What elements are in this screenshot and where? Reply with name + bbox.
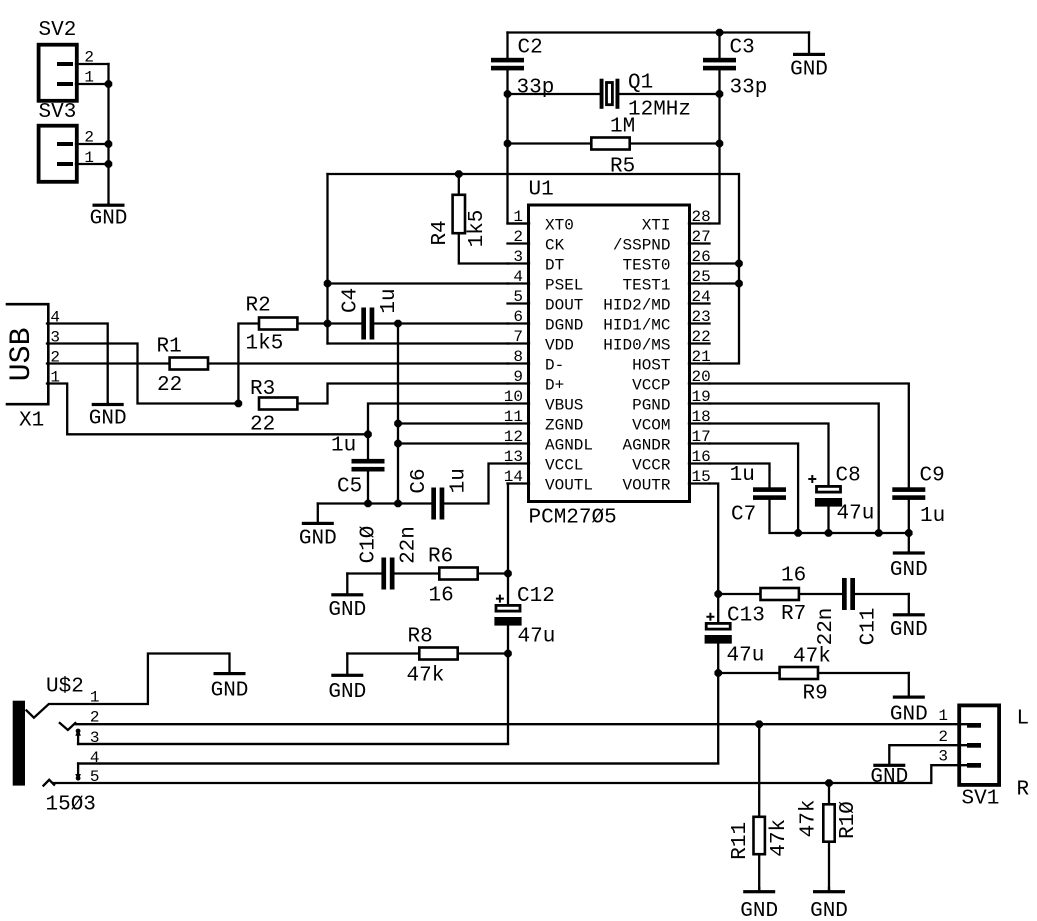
svg-text:PCM27Ø5: PCM27Ø5 — [529, 507, 617, 530]
wire R8 to VOUTL — [459, 652, 508, 654]
pin 22 stub of U1 — [689, 342, 710, 344]
svg-text:GND: GND — [740, 900, 778, 921]
wire VOUTL pin 14 vertical — [507, 484, 509, 605]
svg-text:PGND: PGND — [632, 397, 670, 415]
svg-text:6: 6 — [513, 308, 523, 326]
wire R10 bottom — [828, 843, 830, 890]
resistor R4 — [453, 195, 465, 233]
svg-text:22n: 22n — [815, 608, 838, 646]
svg-text:/SSPND: /SSPND — [613, 237, 671, 255]
resistor R10 — [823, 804, 834, 841]
pin 20 stub of U1 — [689, 382, 710, 384]
jack pin 4 switch arrow — [77, 764, 79, 774]
svg-text:22: 22 — [692, 328, 711, 346]
junction crystal right — [716, 90, 724, 98]
svg-text:21: 21 — [692, 348, 711, 366]
svg-text:TEST1: TEST1 — [622, 277, 670, 295]
wire C7 bottom to rail — [770, 500, 909, 533]
wire VBUS down to C5 — [367, 434, 369, 459]
svg-text:22: 22 — [157, 374, 182, 397]
junction PSEL branch — [324, 280, 332, 288]
wire USB pin2 to R1 — [47, 362, 168, 364]
wire VDD vertical — [326, 174, 328, 344]
svg-text:2: 2 — [938, 728, 948, 746]
svg-text:DT: DT — [545, 257, 564, 275]
pin 12 stub of U1 — [508, 442, 530, 444]
wire VDD net top run to TEST pins — [328, 174, 740, 364]
pin 1 stub of U1 — [508, 222, 530, 224]
svg-text:R1: R1 — [157, 336, 182, 359]
resistor R8 — [419, 648, 457, 660]
svg-text:GND: GND — [810, 900, 848, 921]
svg-text:R9: R9 — [803, 683, 828, 706]
svg-text:3: 3 — [938, 748, 948, 766]
wire SV1 pin 2 to GND — [889, 745, 978, 763]
wire C10 to R6 — [395, 572, 438, 574]
svg-text:47k: 47k — [407, 665, 445, 688]
pin 13 stub of U1 — [508, 462, 530, 464]
wire R11 top — [758, 724, 760, 815]
capacitor C7 — [753, 487, 786, 492]
pin 7 stub of U1 — [508, 342, 530, 344]
svg-text:U$2: U$2 — [46, 676, 84, 699]
pin 18 stub of U1 — [689, 422, 710, 424]
wire DGND vertical — [397, 324, 399, 504]
svg-text:25: 25 — [692, 268, 711, 286]
svg-text:VDD: VDD — [545, 337, 574, 355]
svg-text:1k5: 1k5 — [246, 333, 284, 356]
capacitor C9 — [892, 487, 925, 492]
svg-text:13: 13 — [504, 448, 523, 466]
capacitor C2 — [491, 58, 524, 63]
wire C3 top stub — [718, 33, 720, 59]
svg-text:1u: 1u — [448, 468, 471, 493]
wire R4 to pin 3 — [459, 235, 508, 264]
svg-text:GND: GND — [890, 559, 928, 582]
wire SV2 pin2 — [76, 63, 109, 65]
junction SV2 pin1 — [105, 80, 113, 88]
svg-text:33p: 33p — [730, 77, 768, 100]
wire C2 top stub — [506, 33, 508, 59]
svg-text:VBUS: VBUS — [545, 397, 583, 415]
svg-text:47k: 47k — [797, 799, 820, 837]
connector X1 USB — [7, 304, 48, 404]
junction rail C9 — [905, 529, 913, 537]
jack pin 5 contact — [44, 780, 55, 786]
svg-text:16: 16 — [429, 585, 454, 608]
svg-text:SV3: SV3 — [39, 101, 77, 124]
svg-text:14: 14 — [504, 468, 523, 486]
svg-text:CK: CK — [545, 237, 565, 255]
pin 16 stub of U1 — [689, 462, 710, 464]
svg-text:PSEL: PSEL — [545, 277, 583, 295]
svg-text:GND: GND — [328, 599, 366, 622]
svg-text:15: 15 — [692, 468, 711, 486]
jack pin 1 contact and wire to GND — [27, 654, 230, 718]
svg-text:26: 26 — [692, 248, 711, 266]
svg-text:VCCL: VCCL — [545, 457, 583, 475]
svg-text:GND: GND — [89, 407, 127, 430]
svg-text:10: 10 — [504, 388, 523, 406]
svg-text:L: L — [1017, 708, 1030, 731]
wire jack pin 4 row — [78, 762, 718, 764]
svg-text:HID0/MS: HID0/MS — [603, 337, 670, 355]
junction DGND bottom — [394, 500, 402, 508]
resistor R3 — [259, 398, 297, 410]
svg-text:SV2: SV2 — [39, 19, 77, 42]
svg-text:HID2/MD: HID2/MD — [603, 297, 670, 315]
svg-text:C1Ø: C1Ø — [357, 526, 380, 564]
svg-text:R11: R11 — [729, 822, 752, 860]
junction R7/VOUTR — [714, 590, 722, 598]
pin 11 stub of U1 — [508, 422, 530, 424]
wire R6 to VOUTL — [479, 572, 508, 574]
svg-text:33p: 33p — [517, 77, 555, 100]
svg-text:X1: X1 — [19, 410, 44, 433]
svg-text:47u: 47u — [727, 645, 765, 668]
svg-text:GND: GND — [890, 619, 928, 642]
pin 28 stub of U1 — [689, 222, 710, 224]
svg-text:2: 2 — [513, 228, 523, 246]
svg-text:R3: R3 — [250, 378, 275, 401]
svg-text:C4: C4 — [339, 288, 362, 313]
svg-text:HID1/MC: HID1/MC — [603, 317, 670, 335]
ground below R8 — [346, 654, 348, 675]
junction DGND top — [394, 320, 402, 328]
pin 5 stub of U1 — [508, 302, 530, 304]
svg-text:AGNDL: AGNDL — [545, 437, 593, 455]
resistor R7 — [761, 588, 799, 600]
svg-text:C7: C7 — [731, 504, 756, 527]
pin 17 stub of U1 — [689, 442, 710, 444]
capacitor C11 — [842, 578, 847, 610]
svg-text:22: 22 — [250, 414, 275, 437]
svg-text:TEST0: TEST0 — [622, 257, 670, 275]
pin 8 stub of U1 — [508, 362, 530, 364]
pin 10 stub of U1 — [508, 402, 530, 404]
wire SV2/SV3 ground bus — [107, 64, 109, 204]
junction rail PGND — [875, 529, 883, 537]
wire C4 to pin 6 DGND — [375, 322, 508, 324]
wire SV3 pin2 — [76, 143, 109, 145]
svg-text:GND: GND — [299, 528, 337, 551]
resistor R9 — [780, 667, 818, 679]
junction VBUS node — [364, 431, 372, 439]
wire pin 18 VCOM to C8 — [710, 424, 829, 485]
wire pin 16 VCCR to C7 — [710, 464, 770, 488]
wire pin 7 VDD — [328, 342, 509, 344]
wire VOUTR pin 15 vertical — [710, 484, 719, 623]
svg-text:16: 16 — [692, 448, 711, 466]
resistor R2 — [259, 318, 297, 330]
wire C3 down to pin 28 — [710, 71, 720, 224]
wire C6 to pin 13 VCCL — [445, 464, 508, 504]
junction SV3 pin1 — [105, 160, 113, 168]
jack pin 3 switch arrow — [77, 735, 79, 745]
svg-text:27: 27 — [692, 228, 711, 246]
wire USB pin3 to R3 node — [47, 344, 238, 404]
wire pin 19 PGND — [710, 404, 879, 534]
junction R3 left node — [235, 400, 243, 408]
junction R10 top — [825, 779, 833, 787]
pin 2 stub of U1 — [508, 242, 530, 244]
svg-text:1u: 1u — [378, 288, 401, 313]
wire pin 12 AGNDL — [398, 442, 508, 444]
svg-text:GND: GND — [328, 681, 366, 704]
svg-text:1u: 1u — [730, 464, 755, 487]
wire USB pin4 to GND — [47, 324, 108, 404]
junction crystal left — [504, 90, 512, 98]
svg-text:C11: C11 — [857, 608, 880, 646]
wire C5 bottom — [367, 472, 369, 504]
svg-text:VOUTL: VOUTL — [545, 477, 593, 495]
pin 26 stub of U1 — [689, 262, 710, 264]
svg-text:1: 1 — [513, 208, 523, 226]
svg-text:VCOM: VCOM — [632, 417, 670, 435]
pin 21 stub of U1 — [689, 362, 710, 364]
svg-text:GND: GND — [211, 679, 249, 702]
ground below USB — [107, 402, 109, 405]
svg-text:XT0: XT0 — [545, 217, 574, 235]
svg-text:24: 24 — [692, 288, 711, 306]
resistor R11 — [754, 817, 765, 854]
ground below C10 row — [346, 574, 348, 594]
svg-text:USB: USB — [5, 327, 39, 381]
wire crystal right — [619, 93, 719, 95]
svg-text:9: 9 — [513, 368, 523, 386]
svg-text:VOUTR: VOUTR — [622, 477, 670, 495]
svg-text:C3: C3 — [730, 37, 755, 60]
wire TEST0 pin26 — [710, 262, 740, 264]
svg-text:1u: 1u — [331, 435, 356, 458]
junction rail C8 — [825, 529, 833, 537]
junction R4 top — [455, 170, 463, 178]
pin 25 stub of U1 — [689, 282, 710, 284]
svg-text:R4: R4 — [429, 220, 452, 245]
wire R3 to pin 9 D+ — [299, 384, 508, 404]
svg-text:GND: GND — [790, 59, 828, 82]
svg-text:HOST: HOST — [632, 357, 670, 375]
svg-text:R1Ø: R1Ø — [837, 801, 860, 839]
svg-text:U1: U1 — [529, 179, 554, 202]
svg-text:20: 20 — [692, 368, 711, 386]
svg-text:C5: C5 — [337, 476, 362, 499]
svg-text:47u: 47u — [837, 503, 875, 526]
wire C9 bottom — [908, 500, 910, 533]
connector SV2 — [39, 45, 77, 101]
wire R10 top — [828, 783, 830, 803]
svg-text:VCCR: VCCR — [632, 457, 671, 475]
ground below R10 — [828, 888, 830, 891]
junction ZGND — [394, 420, 402, 428]
svg-text:C2: C2 — [518, 37, 543, 60]
svg-text:D-: D- — [545, 357, 564, 375]
junction rail AGNDR — [794, 529, 802, 537]
wire crystal left — [508, 93, 600, 95]
svg-text:DGND: DGND — [545, 317, 583, 335]
svg-text:18: 18 — [692, 408, 711, 426]
plus sign of C12 — [496, 595, 504, 603]
pin 9 stub of U1 — [508, 382, 530, 384]
pin 23 stub of U1 — [689, 322, 710, 324]
ground below C5 — [317, 504, 319, 523]
svg-text:1k5: 1k5 — [466, 210, 489, 248]
crystal Q1 — [600, 79, 604, 109]
junction R8/VOUTL — [504, 650, 512, 658]
plus sign of C8 — [808, 475, 816, 483]
svg-text:DOUT: DOUT — [545, 297, 583, 315]
wire R2 to C4 — [299, 322, 362, 324]
pin 14 stub of U1 — [508, 482, 530, 484]
junction SV3 pin2 — [105, 140, 113, 148]
svg-text:47u: 47u — [518, 626, 556, 649]
ground top right — [808, 33, 810, 54]
wire R7 to C11 — [800, 593, 842, 595]
svg-text:11: 11 — [504, 408, 523, 426]
capacitor C10 — [381, 558, 386, 590]
connector SV1 — [959, 705, 999, 785]
svg-text:12MHz: 12MHz — [628, 99, 691, 122]
wire C12 bottom to jack — [78, 625, 508, 744]
wire pin 11 ZGND — [398, 422, 508, 424]
pin 24 stub of U1 — [689, 302, 710, 304]
junction R5 left — [504, 140, 512, 148]
wire R5 right — [631, 142, 720, 144]
svg-text:C9: C9 — [920, 465, 945, 488]
svg-text:16: 16 — [781, 565, 806, 588]
wire pin 17 AGNDR — [710, 444, 799, 534]
wire R11 bottom — [758, 856, 760, 891]
svg-text:1M: 1M — [610, 116, 635, 139]
capacitor C4 — [361, 308, 366, 340]
junction R5 right — [716, 140, 724, 148]
plus sign of C13 — [706, 613, 714, 621]
junction C5 bottom — [364, 500, 372, 508]
ground for jack pin 1 — [214, 672, 246, 675]
wire jack pin 2 to SV1 pin 1 — [75, 723, 978, 725]
wire R5 left — [508, 142, 591, 144]
svg-text:47k: 47k — [793, 646, 831, 669]
ground for SV1 pin 2 — [873, 764, 905, 767]
wire C13 bottom — [78, 644, 718, 764]
svg-text:22n: 22n — [398, 526, 421, 564]
svg-text:VCCP: VCCP — [632, 377, 670, 395]
wire jack pin 3 to VOUTL net — [78, 743, 508, 745]
wire R1 to pin 8 D- — [209, 362, 508, 364]
resistor R5 — [591, 138, 629, 150]
svg-text:C6: C6 — [408, 468, 431, 493]
svg-text:GND: GND — [90, 208, 128, 231]
svg-text:R: R — [1017, 779, 1030, 802]
resistor R1 — [170, 358, 208, 370]
svg-text:28: 28 — [692, 208, 711, 226]
svg-text:1: 1 — [938, 707, 948, 725]
junction AGNDL — [394, 440, 402, 448]
wire R2 left corner — [238, 324, 257, 404]
svg-text:GND: GND — [870, 766, 908, 789]
svg-text:3: 3 — [513, 248, 523, 266]
capacitor C5 — [352, 459, 385, 464]
wire VBUS up to pin 10 — [368, 404, 508, 435]
wire C11 to GND — [855, 593, 909, 595]
svg-text:4: 4 — [513, 268, 523, 286]
svg-text:AGNDR: AGNDR — [622, 437, 670, 455]
junction R9/VOUTR — [714, 669, 722, 677]
wire R6 row — [347, 572, 381, 574]
junction TEST0 — [735, 260, 743, 268]
wire R9 to GND — [819, 672, 909, 674]
svg-text:7: 7 — [513, 328, 523, 346]
junction top wire at C3 — [716, 29, 724, 37]
wire SV2 pin1 — [76, 83, 109, 85]
jack pin 2 contact — [60, 723, 76, 730]
svg-text:17: 17 — [692, 428, 711, 446]
svg-text:15Ø3: 15Ø3 — [46, 794, 96, 817]
capacitor C12 — [496, 605, 520, 611]
wire USB pin1 VBUS — [47, 384, 368, 435]
wire gnd row to C6 — [318, 502, 432, 504]
wire R4 top — [458, 174, 460, 194]
resistor R6 — [439, 568, 477, 580]
ground below C11 — [908, 594, 910, 614]
pin 6 stub of U1 — [508, 322, 530, 324]
svg-text:Q1: Q1 — [628, 72, 653, 95]
svg-text:XTI: XTI — [642, 217, 671, 235]
capacitor C3 — [703, 58, 736, 63]
svg-text:R8: R8 — [408, 626, 433, 649]
svg-text:R7: R7 — [781, 603, 806, 626]
svg-text:C12: C12 — [517, 585, 555, 608]
wire pin 4 PSEL — [328, 282, 509, 284]
junction R11 top — [755, 720, 763, 728]
pin 27 stub of U1 — [689, 242, 710, 244]
wire C2 down to pin 1 — [508, 71, 530, 224]
wire top net C2 to GND — [508, 31, 810, 33]
svg-text:12: 12 — [504, 428, 523, 446]
svg-text:C8: C8 — [836, 465, 861, 488]
ground below R11 — [758, 888, 760, 891]
svg-text:5: 5 — [513, 288, 523, 306]
junction TEST1 — [735, 280, 743, 288]
junction VDD/C4 branch — [324, 320, 332, 328]
ground below rail — [908, 533, 910, 552]
svg-text:47k: 47k — [768, 819, 791, 857]
wire R7 row — [718, 593, 759, 595]
wire C8 bottom to rail — [827, 506, 829, 533]
junction R6/VOUTL — [504, 570, 512, 578]
audio jack U$2 body — [13, 701, 25, 786]
pin 3 stub of U1 — [508, 262, 530, 264]
svg-text:19: 19 — [692, 388, 711, 406]
wire R8 row — [347, 652, 418, 654]
capacitor C6 — [431, 488, 436, 520]
capacitor C8 — [817, 486, 841, 492]
pin 4 stub of U1 — [508, 282, 530, 284]
svg-text:1u: 1u — [920, 505, 945, 528]
ground below R9 — [908, 673, 910, 696]
svg-text:ZGND: ZGND — [545, 417, 583, 435]
wire R9 row — [718, 672, 779, 674]
wire jack pin 5 to SV1 pin 3 — [54, 765, 978, 783]
connector SV3 — [39, 126, 77, 182]
wire TEST1 pin25 — [710, 282, 740, 284]
capacitor C13 — [706, 623, 730, 629]
svg-text:D+: D+ — [545, 377, 564, 395]
wire pin 20 VCCP to C9 — [710, 384, 909, 488]
wire SV3 pin1 — [76, 163, 109, 165]
svg-text:23: 23 — [692, 308, 711, 326]
svg-text:8: 8 — [513, 348, 523, 366]
